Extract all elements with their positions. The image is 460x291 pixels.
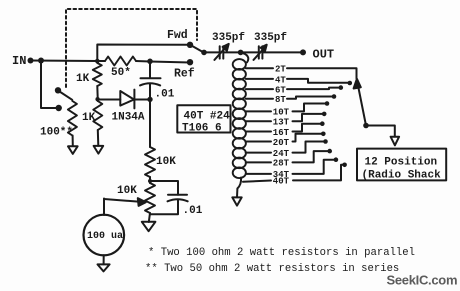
- tap stub 2T: [246, 67, 273, 69]
- wire main out line: [204, 51, 220, 53]
- tap route 34T: [293, 160, 335, 174]
- meter M1 circle: [84, 215, 125, 256]
- node cap junction: [147, 59, 153, 65]
- node switch common: [201, 50, 207, 56]
- node OUT terminal: [300, 49, 306, 55]
- tap route 2T: [287, 68, 357, 78]
- svg-text:28T: 28T: [273, 159, 290, 169]
- tap route 20T: [293, 134, 322, 142]
- dashed gang linkage: [66, 9, 197, 87]
- wire diode cathode: [134, 99, 150, 101]
- svg-text:24T: 24T: [273, 149, 290, 159]
- tap route 4T: [287, 79, 348, 83]
- svg-text:Ref: Ref: [174, 68, 195, 81]
- tap stub 16T: [246, 131, 271, 133]
- tap stub 6T: [246, 88, 273, 90]
- svg-text:10K: 10K: [117, 185, 137, 197]
- node contact 40T: [342, 163, 347, 168]
- node rotary pivot: [363, 123, 369, 129]
- tap route 13T: [293, 114, 323, 121]
- svg-text:4T: 4T: [275, 75, 286, 85]
- variable capacitor VC1 335pf: [219, 46, 221, 58]
- capacitor C2 .01: [168, 194, 187, 196]
- svg-text:1K: 1K: [76, 73, 90, 85]
- ground under meter: [98, 264, 110, 271]
- svg-text:** Two 50 ohm 2 watt resistors: ** Two 50 ohm 2 watt resistors in series: [145, 263, 399, 275]
- node Ref contact: [187, 59, 193, 65]
- wiper arrow: [104, 199, 140, 202]
- svg-text:IN: IN: [12, 54, 26, 68]
- wire wiper to meter: [103, 199, 105, 216]
- switch S1 arm: [58, 91, 72, 100]
- svg-text:335pf: 335pf: [212, 32, 245, 44]
- svg-text:335pf: 335pf: [254, 32, 287, 44]
- svg-text:100 ua: 100 ua: [87, 231, 123, 242]
- node IN branch: [38, 58, 44, 64]
- node contact 24T: [323, 139, 328, 144]
- tap route 8T: [287, 97, 332, 99]
- wire top to Fwd: [97, 45, 190, 62]
- box 40T #24 T106-6: [177, 105, 230, 132]
- svg-text:6T: 6T: [275, 85, 286, 95]
- node 1K diode junction: [95, 97, 99, 101]
- node contact 4T: [348, 81, 353, 86]
- capacitor C1 .01: [141, 77, 161, 79]
- svg-text:SeekIC.com: SeekIC.com: [387, 273, 458, 288]
- variable capacitor VC2 335pf: [258, 46, 260, 58]
- wire IN line: [30, 60, 105, 63]
- wire 10K middle: [149, 177, 151, 183]
- tap stub 4T: [246, 78, 273, 80]
- node 50 ohm left junction: [95, 59, 100, 64]
- wire cap C1 top: [149, 62, 151, 79]
- svg-text:40T: 40T: [273, 177, 290, 187]
- svg-text:13T: 13T: [273, 118, 290, 128]
- node contact 20T: [321, 132, 326, 137]
- node contact 34T: [334, 157, 339, 162]
- tap route 16T: [293, 124, 321, 132]
- svg-text:* Two 100 ohm 2 watt resistors: * Two 100 ohm 2 watt resistors in parall…: [148, 247, 415, 259]
- node contact 13T: [322, 112, 327, 117]
- open arrow to box: [391, 137, 400, 146]
- tap route 40T: [293, 165, 343, 181]
- svg-text:40T #24: 40T #24: [184, 111, 231, 123]
- svg-text:(Radio Shack: (Radio Shack: [362, 170, 442, 182]
- potentiometer 10K: [145, 183, 155, 213]
- svg-text:10K: 10K: [156, 156, 176, 168]
- rotary wiper shaft: [358, 83, 367, 126]
- resistor 50*: [105, 57, 136, 66]
- svg-text:12 Position: 12 Position: [365, 157, 438, 169]
- coil L1 loops: [233, 59, 246, 178]
- wire 100 to gnd: [72, 136, 74, 147]
- tap route 10T: [293, 104, 326, 112]
- node pot top junction: [148, 179, 152, 183]
- tap route 6T: [287, 88, 339, 90]
- ground under coil: [232, 197, 241, 205]
- node Fwd contact: [187, 42, 193, 48]
- tap stub 24T: [246, 152, 271, 154]
- node contact 16T: [320, 121, 325, 126]
- wire diode anode: [98, 99, 121, 101]
- ground under 1K: [94, 146, 104, 154]
- node contact 10T: [325, 101, 330, 106]
- ground under pot: [142, 222, 156, 231]
- coil L1 top lead: [240, 53, 248, 63]
- svg-text:100**: 100**: [40, 127, 73, 139]
- svg-text:OUT: OUT: [313, 48, 335, 62]
- tap stub 34T: [246, 173, 271, 175]
- svg-text:.01: .01: [155, 89, 175, 101]
- svg-text:8T: 8T: [275, 95, 286, 105]
- svg-text:Fwd: Fwd: [167, 29, 188, 42]
- resistor R 1K upper: [93, 63, 102, 86]
- wire IN branch down: [41, 61, 56, 109]
- wire 1K to gnd: [97, 130, 100, 146]
- capacitor C2 wires: [150, 181, 178, 195]
- wire meter to gnd: [103, 255, 105, 264]
- resistor R 1K lower: [93, 101, 102, 130]
- node switch lower contact: [56, 105, 62, 111]
- tap stub 40T: [243, 181, 271, 182]
- tap stub 8T: [246, 98, 273, 100]
- tap route 24T: [293, 142, 324, 153]
- node contact 28T: [327, 149, 332, 154]
- rotary wiper arrowhead: [354, 79, 361, 89]
- node switch upper contact: [55, 87, 61, 93]
- resistor 100**: [68, 101, 77, 136]
- svg-text:20T: 20T: [273, 138, 290, 148]
- tap stub 13T: [246, 120, 271, 122]
- diode 1N34A: [120, 91, 134, 106]
- box 12 Position Radio Shack: [357, 149, 446, 181]
- svg-text:.01: .01: [183, 205, 203, 217]
- svg-text:2T: 2T: [275, 65, 286, 75]
- svg-text:16T: 16T: [273, 128, 290, 138]
- resistor 10K upper: [145, 147, 155, 177]
- coil L1 bottom lead: [237, 178, 241, 198]
- wire pivot to arrow: [366, 126, 395, 137]
- svg-text:1N34A: 1N34A: [112, 112, 145, 124]
- svg-text:10T: 10T: [273, 108, 290, 118]
- svg-text:T106 6: T106 6: [182, 123, 222, 135]
- node diode junction: [147, 97, 152, 102]
- wire pot to gnd: [149, 213, 150, 222]
- wire 50 to Ref: [136, 61, 190, 63]
- ground under 100: [68, 146, 78, 154]
- node contact 6T: [339, 85, 344, 90]
- svg-text:1K: 1K: [82, 112, 96, 124]
- node IN terminal: [28, 58, 34, 64]
- switch S2 arm Fwd: [190, 45, 204, 53]
- wire C1 down: [149, 84, 151, 148]
- tap stub 20T: [246, 141, 271, 143]
- svg-text:50*: 50*: [111, 67, 131, 79]
- tap stub 10T: [246, 110, 271, 112]
- tap route 28T: [293, 151, 328, 162]
- wire 1K junction: [96, 86, 99, 101]
- node coil top junction: [238, 50, 244, 56]
- node contact 8T: [332, 94, 337, 99]
- tap stub 28T: [246, 161, 271, 163]
